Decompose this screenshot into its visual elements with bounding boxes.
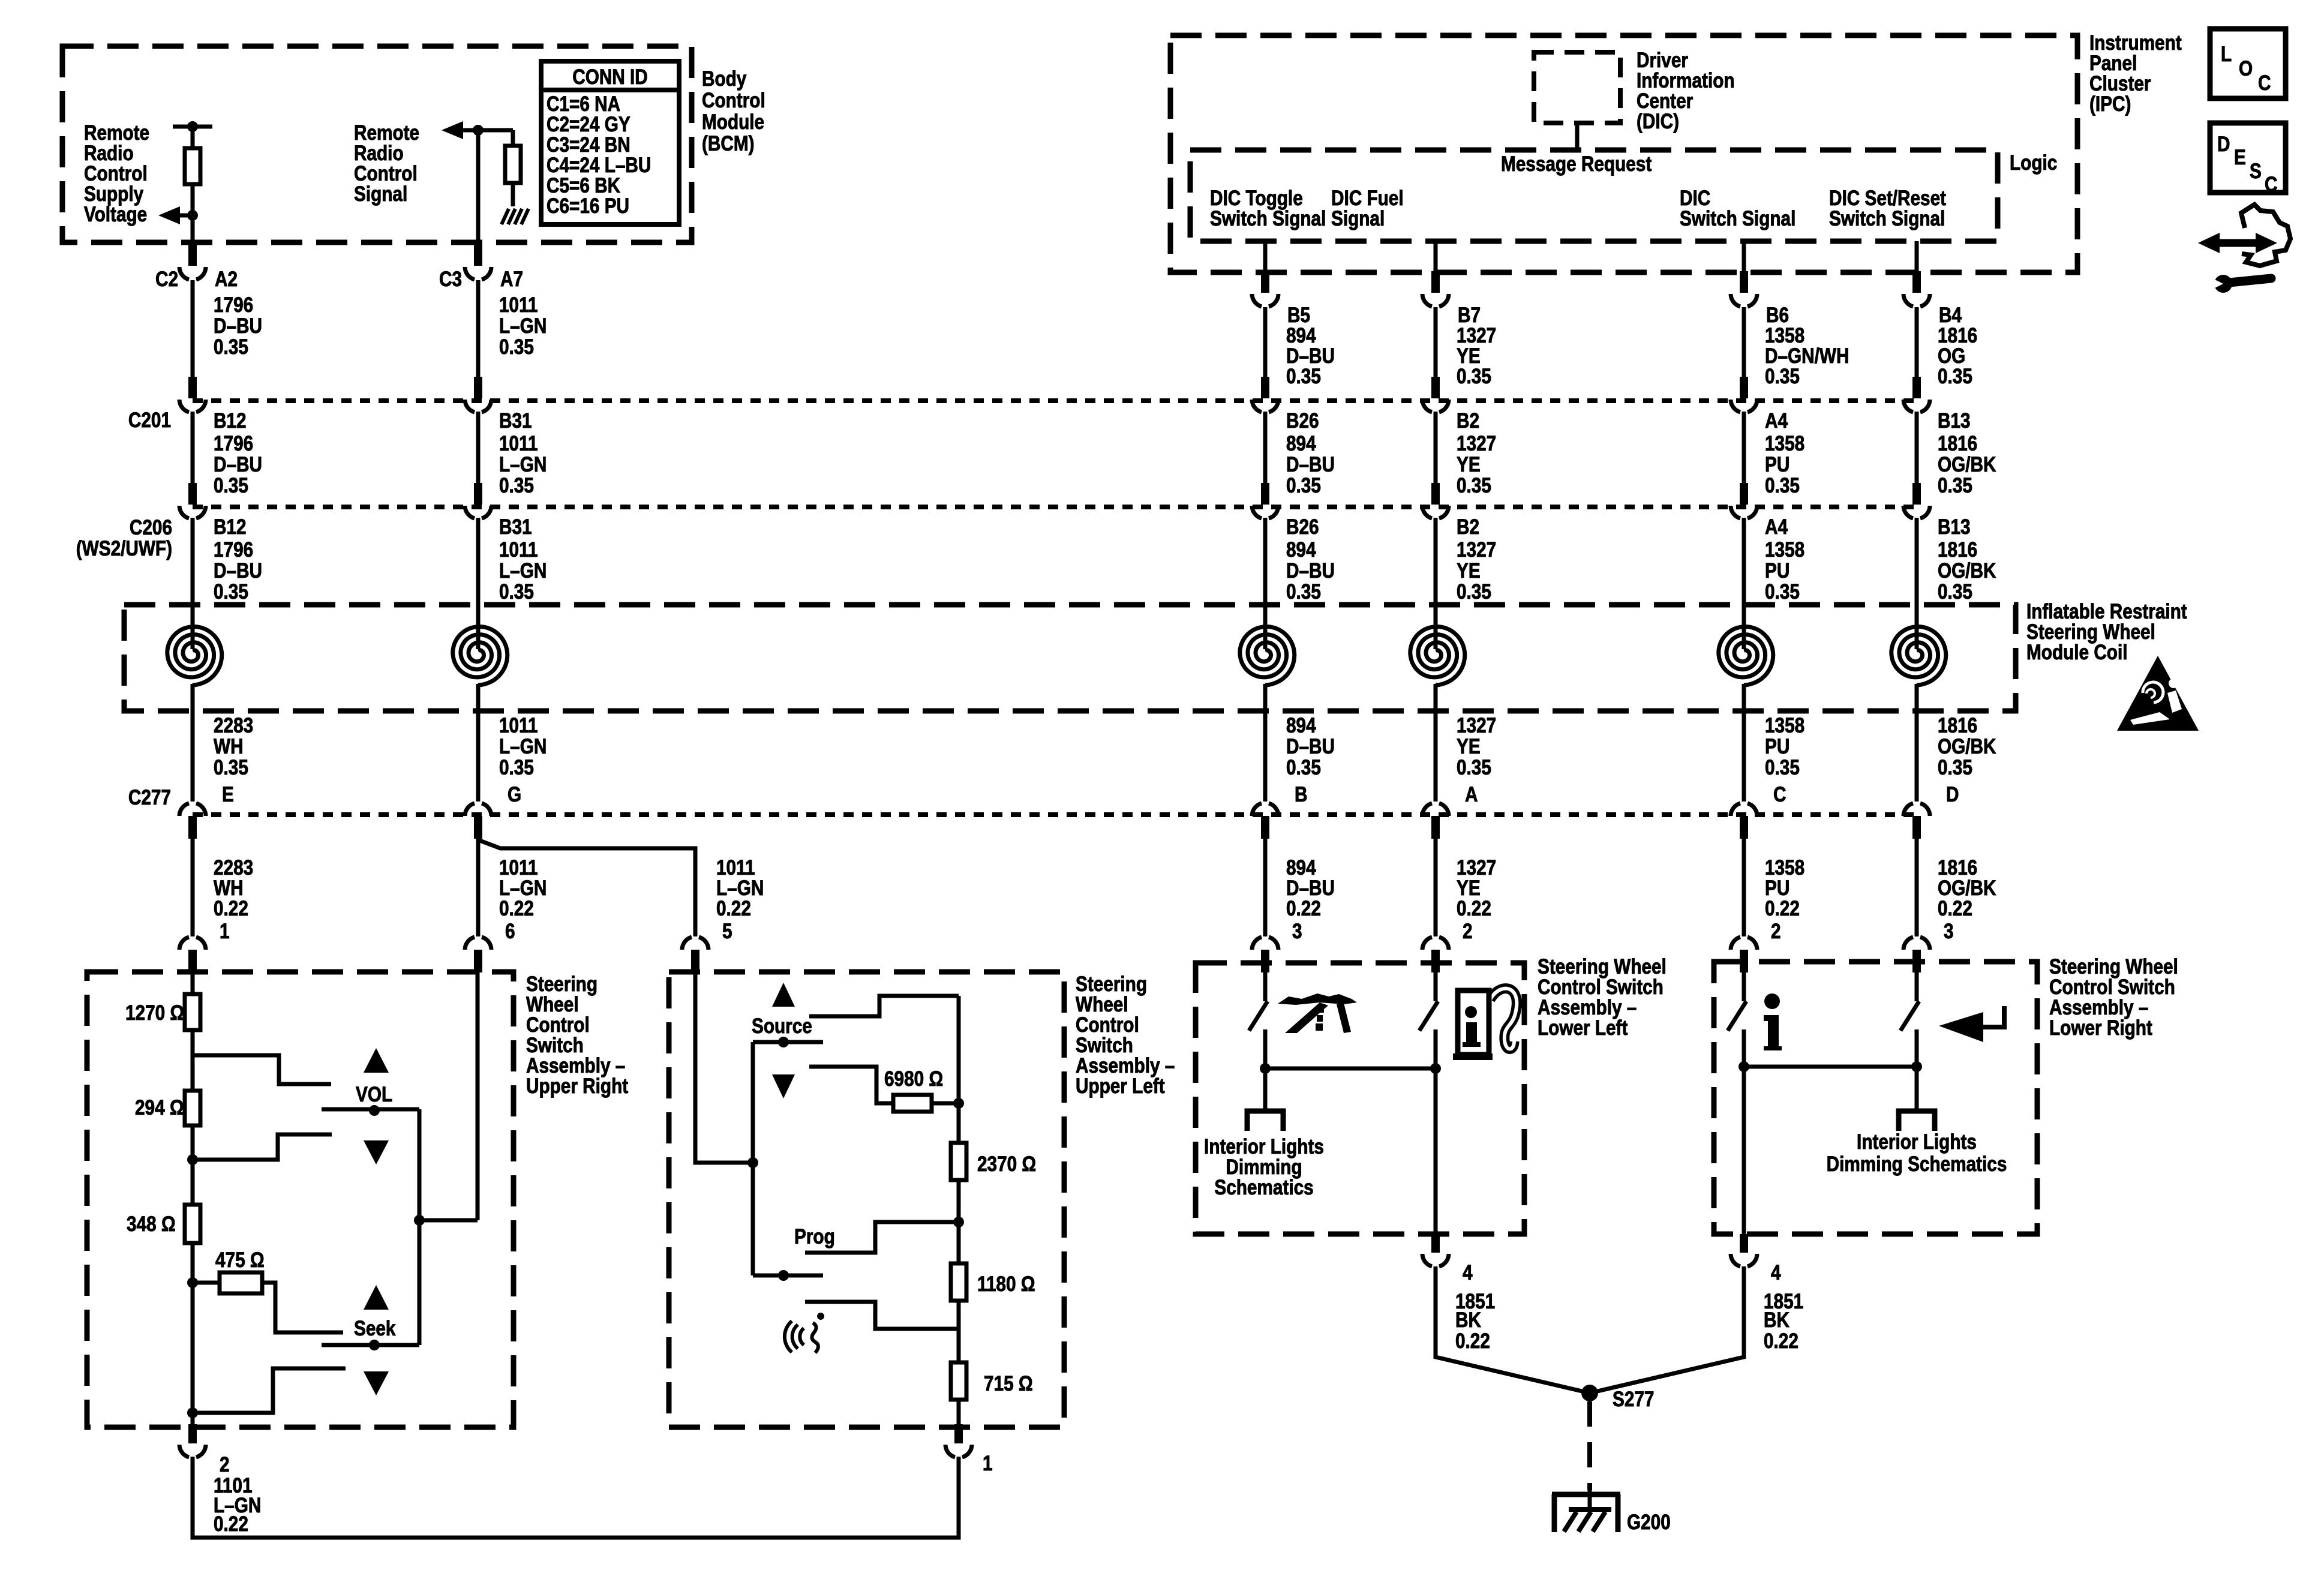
icon: set/reset left arrow	[1939, 1006, 2004, 1042]
svg-text:C5=6 BK: C5=6 BK	[547, 174, 621, 197]
svg-text:PU: PU	[1765, 876, 1789, 900]
wire: Prog common contact	[753, 1270, 823, 1281]
svg-text:D–BU: D–BU	[214, 314, 262, 338]
label: 1796 D-BU 0.35 (row1 col1)	[214, 293, 262, 359]
svg-text:D–BU: D–BU	[214, 453, 262, 476]
icon: VOL down arrow	[364, 1140, 389, 1164]
svg-text:D: D	[1946, 783, 1959, 806]
svg-text:0.35: 0.35	[214, 756, 248, 779]
module box: Steering Wheel Control Switch Assembly - Lower Right	[1714, 962, 2037, 1234]
connector C201 pin B2	[1422, 377, 1449, 412]
connector: lower assembly pin 2 (x=2393)	[1422, 937, 1449, 972]
wire: Source lower contact	[809, 1067, 893, 1103]
svg-text:B13: B13	[1938, 409, 1971, 433]
label: 2283 WH 0.35 (row4)	[214, 714, 253, 779]
wire: bus to pin 1	[957, 1400, 961, 1424]
wire: VOL/Seek common bus	[414, 1109, 425, 1345]
svg-text:2: 2	[1463, 920, 1473, 943]
svg-text:1327: 1327	[1457, 856, 1496, 879]
resistor R 2370	[951, 1143, 966, 1180]
label: 1180 ohm	[977, 1272, 1035, 1296]
svg-text:YE: YE	[1457, 735, 1481, 758]
svg-text:DIC Set/Reset: DIC Set/Reset	[1829, 187, 1946, 210]
svg-text:Supply: Supply	[84, 182, 143, 206]
svg-text:C277: C277	[128, 786, 171, 809]
coil (clockspring) on wire 894	[1240, 627, 1295, 686]
wire: to R475	[193, 1281, 220, 1285]
connector C277 pin A	[1422, 803, 1449, 839]
arrow: Remote Radio Control Supply Voltage	[158, 206, 193, 224]
svg-text:A4: A4	[1765, 515, 1788, 539]
icon: Seek up arrow	[364, 1285, 389, 1310]
svg-text:G200: G200	[1627, 1511, 1671, 1534]
wire: R6980 to bus	[932, 1101, 959, 1106]
svg-text:Body: Body	[702, 67, 746, 91]
coil (clockspring) on wire 1816	[1891, 627, 1946, 686]
wire 1327 (C201 to C206)	[1434, 412, 1438, 484]
module box: Steering Wheel Control Switch Assembly - Upper Left	[669, 972, 1064, 1427]
svg-text:0.35: 0.35	[1286, 756, 1321, 779]
wire 1327 (C277 to switch pin 2)	[1434, 837, 1438, 936]
wire: Source common contact	[753, 1037, 823, 1047]
label: 1011 L–GN 0.35 (row4)	[499, 714, 547, 779]
label: Interior Lights Dimming Schematics (right)	[1827, 1130, 2007, 1176]
svg-text:DIC Fuel: DIC Fuel	[1331, 187, 1404, 210]
icon: VOL up arrow	[364, 1048, 389, 1073]
wire 1011 (C201 to C206)	[476, 412, 481, 484]
connector: upper-right assembly pin 6	[465, 937, 491, 972]
svg-text:2283: 2283	[214, 714, 253, 737]
svg-text:1180 Ω: 1180 Ω	[977, 1272, 1035, 1296]
wire 894 (IPC to C201)	[1263, 307, 1268, 378]
label: C277	[128, 786, 171, 809]
svg-text:2283: 2283	[214, 856, 253, 879]
stub: interior lights dimming (left)	[1247, 1111, 1283, 1131]
svg-text:B31: B31	[499, 409, 532, 433]
label: DIC Fuel Signal	[1331, 187, 1404, 230]
svg-text:D–GN/WH: D–GN/WH	[1765, 344, 1849, 368]
wire 1816 (coil to C277)	[1915, 684, 1919, 801]
svg-text:0.35: 0.35	[499, 474, 534, 497]
label: Interior Lights Dimming Schematics (left)	[1204, 1135, 1324, 1199]
label: 894 D–BU 0.22 / pin 3	[1286, 856, 1335, 943]
svg-text:Module Coil: Module Coil	[2026, 641, 2127, 664]
wire: pin 6 bus	[476, 972, 480, 1220]
svg-text:0.35: 0.35	[499, 756, 534, 779]
label: pin 2 / 1101 L-GN 0.22	[214, 1453, 261, 1536]
connector C277 pin G	[465, 803, 491, 839]
wire: Seek lower contact	[193, 1368, 346, 1413]
wire 2283 (coil to C277)	[191, 684, 195, 801]
svg-text:1327: 1327	[1457, 714, 1496, 737]
wire: bottom link pin2 to pin1	[193, 1457, 959, 1538]
svg-text:C206: C206	[130, 516, 172, 539]
svg-text:BK: BK	[1455, 1308, 1481, 1332]
wire: col6 to dimming stub	[1915, 1029, 1919, 1111]
svg-text:0.35: 0.35	[1286, 365, 1321, 388]
svg-text:1327: 1327	[1457, 538, 1496, 562]
label: 1011 L-GN 0.35 (row1 col2)	[499, 293, 547, 359]
svg-text:0.35: 0.35	[1457, 365, 1491, 388]
connector C206 pin B12	[179, 483, 206, 518]
icon: fuel pump	[1453, 989, 1517, 1060]
svg-text:C4=24 L–BU: C4=24 L–BU	[547, 154, 651, 177]
svg-text:0.22: 0.22	[1938, 897, 1972, 920]
svg-text:1358: 1358	[1765, 856, 1804, 879]
label: 1358 PU 0.22 / pin 2	[1765, 856, 1804, 943]
svg-text:D–BU: D–BU	[1286, 344, 1335, 368]
svg-text:D–BU: D–BU	[1286, 559, 1335, 583]
svg-text:2: 2	[1771, 920, 1781, 943]
label: C206 B13	[1938, 515, 1971, 539]
label: Body Control Module (BCM)	[702, 67, 765, 155]
wire 894 (coil to C277)	[1263, 684, 1268, 801]
label: 1270 ohm	[125, 1001, 184, 1025]
wire: source/prog common bus	[747, 1042, 758, 1275]
label: C206 B26	[1286, 515, 1319, 539]
svg-text:0.22: 0.22	[214, 897, 248, 920]
svg-text:Lower Right: Lower Right	[2049, 1016, 2152, 1040]
arrow: Remote Radio Control Signal	[442, 121, 476, 139]
svg-text:Remote: Remote	[84, 121, 149, 145]
connector IPC pin B4	[1903, 271, 1930, 307]
resistor R1 (BCM internal pull-up)	[185, 148, 200, 184]
icon: Seek down arrow	[364, 1371, 389, 1395]
wire: fuel switch upper (col4)	[1434, 972, 1438, 1001]
connector: upper-left assembly pin 1 (bottom)	[945, 1424, 972, 1457]
label: 1816 OG 0.35 (row1)	[1938, 324, 1977, 388]
label: Source	[752, 1014, 812, 1038]
svg-text:2370 Ω: 2370 Ω	[977, 1152, 1036, 1176]
label: 1327 YE 0.35 (row4)	[1457, 714, 1496, 779]
label: 894 D–BU 0.35 (row4)	[1286, 714, 1335, 779]
coil (clockspring) on wire 1011	[453, 627, 508, 686]
svg-text:D: D	[2217, 133, 2230, 156]
svg-text:Switch: Switch	[1076, 1034, 1133, 1057]
wire: set/reset switch upper (col6)	[1915, 972, 1919, 1001]
svg-text:C3: C3	[439, 268, 462, 291]
svg-text:YE: YE	[1457, 453, 1481, 476]
label: 1011 L–GN 0.35 (row3)	[499, 538, 547, 604]
connector C201 pin A4	[1731, 377, 1757, 412]
wire: tie line lower-right	[1739, 1061, 1922, 1072]
svg-text:C: C	[2265, 173, 2277, 196]
splice S277	[1581, 1385, 1598, 1401]
svg-text:Switch Signal: Switch Signal	[1210, 207, 1326, 230]
label: Steering Wheel Control Switch Assembly - Upper Left	[1076, 972, 1175, 1098]
wire: tick to resistor R1	[191, 127, 195, 148]
connector: lower-left assembly pin 4	[1422, 1234, 1449, 1266]
svg-text:D–BU: D–BU	[214, 559, 262, 583]
svg-text:D–BU: D–BU	[1286, 735, 1335, 758]
svg-text:6980 Ω: 6980 Ω	[884, 1067, 943, 1091]
svg-text:B13: B13	[1938, 515, 1971, 539]
svg-text:Lower Left: Lower Left	[1538, 1016, 1628, 1040]
wire 894 (C201 to C206)	[1263, 412, 1268, 484]
svg-text:C1=6 NA: C1=6 NA	[547, 92, 620, 116]
connector: lower assembly pin 3 (x=3195)	[1903, 937, 1930, 972]
wire 1327 (IPC to C201)	[1434, 307, 1438, 378]
svg-text:L: L	[2221, 43, 2232, 66]
connector C201 pin B26	[1252, 377, 1278, 412]
wire 1327 (coil to C277)	[1434, 684, 1438, 801]
wire: Logic output to pin B6	[1742, 241, 1746, 274]
wire: Logic output to pin B7	[1434, 241, 1438, 274]
label: pin 1	[983, 1452, 993, 1475]
label: pin 4 / 1851 BK 0.22 (right)	[1764, 1261, 1803, 1353]
label: Instrument Panel Cluster (IPC)	[2089, 31, 2182, 116]
label: C201 B26	[1286, 409, 1319, 433]
box: Driver Information Center (DIC)	[1534, 52, 1620, 123]
wire: info switch upper (col5)	[1742, 972, 1746, 1001]
label: 1327 YE 0.35 (row2)	[1457, 432, 1496, 497]
svg-text:C2=24 GY: C2=24 GY	[547, 113, 630, 136]
label: S277	[1613, 1388, 1654, 1411]
connector IPC pin B5	[1252, 271, 1278, 307]
svg-text:1358: 1358	[1765, 324, 1804, 347]
label: C277 pin B	[1295, 783, 1307, 806]
svg-text:Assembly –: Assembly –	[1076, 1054, 1175, 1077]
connector C201 pin B13	[1903, 377, 1930, 412]
connector C277 pin C	[1731, 803, 1757, 839]
svg-text:S: S	[2250, 160, 2262, 183]
svg-text:6: 6	[505, 920, 515, 943]
svg-text:B12: B12	[214, 409, 247, 433]
svg-text:YE: YE	[1457, 876, 1481, 900]
connector C206 pin B2	[1422, 483, 1449, 518]
svg-text:E: E	[222, 783, 234, 806]
svg-text:Dimming: Dimming	[1226, 1155, 1302, 1179]
svg-text:(IPC): (IPC)	[2089, 92, 2131, 116]
svg-text:B6: B6	[1766, 304, 1789, 327]
svg-text:(WS2/UWF): (WS2/UWF)	[76, 537, 172, 560]
label: 1327 YE 0.35 (row1)	[1457, 324, 1496, 388]
label: C201 B31	[499, 409, 532, 433]
svg-text:0.22: 0.22	[1286, 897, 1321, 920]
svg-text:B31: B31	[499, 515, 532, 539]
svg-text:4: 4	[1463, 1261, 1473, 1284]
connector C201 pin B12	[179, 377, 206, 412]
wire: Prog upper contact	[805, 1222, 959, 1253]
svg-text:Steering: Steering	[1076, 972, 1147, 996]
svg-text:B5: B5	[1287, 304, 1310, 327]
wire: Seek common contact	[322, 1340, 419, 1350]
svg-text:0.35: 0.35	[1938, 756, 1972, 779]
wire: VOL upper contact	[193, 1055, 331, 1084]
svg-text:L–GN: L–GN	[499, 453, 547, 476]
svg-text:0.35: 0.35	[1457, 756, 1491, 779]
svg-text:1816: 1816	[1938, 538, 1977, 562]
svg-text:1011: 1011	[499, 538, 538, 562]
label: 1327 YE 0.35 (row3)	[1457, 538, 1496, 604]
svg-text:5: 5	[722, 920, 732, 943]
svg-text:1011: 1011	[499, 856, 538, 879]
label: DIC Set/Reset Switch Signal	[1829, 187, 1946, 230]
connector C206 pin A4	[1731, 483, 1757, 518]
label: 6980 ohm	[884, 1067, 943, 1091]
svg-text:B2: B2	[1457, 409, 1479, 433]
wire: VOL common contact	[322, 1105, 419, 1116]
label: 715 ohm	[984, 1372, 1033, 1395]
svg-text:0.35: 0.35	[1457, 580, 1491, 604]
svg-text:1011: 1011	[499, 714, 538, 737]
svg-text:1816: 1816	[1938, 856, 1977, 879]
label: 1816 OG/BK 0.35 (row2)	[1938, 432, 1996, 497]
svg-text:0.35: 0.35	[499, 580, 534, 604]
label: 894 D–BU 0.35 (row2)	[1286, 432, 1335, 497]
svg-text:1796: 1796	[214, 293, 253, 317]
wire 1816 (C201 to C206)	[1915, 412, 1919, 484]
svg-text:0.35: 0.35	[1938, 365, 1972, 388]
svg-text:1816: 1816	[1938, 432, 1977, 455]
label: 475 ohm	[215, 1248, 265, 1272]
svg-text:VOL: VOL	[356, 1083, 392, 1106]
icon: DIC toggle (road)	[1278, 993, 1357, 1033]
label: C206 (WS2/UWF)	[76, 516, 172, 560]
svg-text:2: 2	[220, 1453, 230, 1476]
wire: node to BCM pin A7	[476, 130, 481, 242]
svg-text:1: 1	[220, 920, 230, 943]
svg-text:Upper Left: Upper Left	[1076, 1074, 1165, 1098]
label: C2 | A2	[155, 268, 238, 291]
wire 1816 (IPC to C201)	[1915, 307, 1919, 378]
label: Driver Information Center (DIC)	[1637, 49, 1735, 133]
icon: Source down arrow	[772, 1074, 795, 1098]
svg-text:Steering: Steering	[526, 972, 597, 996]
svg-text:Control: Control	[354, 162, 418, 185]
svg-text:1816: 1816	[1938, 714, 1977, 737]
label: 1358 D–GN/WH 0.35 (row1)	[1765, 324, 1849, 388]
label: 2370 ohm	[977, 1152, 1036, 1176]
svg-text:Panel: Panel	[2089, 52, 2137, 75]
svg-text:OG/BK: OG/BK	[1938, 559, 1996, 583]
wire 1796 D-BU (BCM to C201)	[191, 280, 195, 378]
wire 1358 (C277 to switch pin 2)	[1742, 837, 1746, 936]
legend box: LOC	[2210, 29, 2286, 98]
svg-text:0.22: 0.22	[214, 1512, 248, 1536]
label: C277 pin A	[1465, 783, 1478, 806]
module box: Steering Wheel Control Switch Assembly - Upper Right	[87, 972, 514, 1427]
wire: voice contact	[805, 1302, 959, 1329]
wire: R1270 to R294	[191, 1030, 195, 1091]
label: 1011 L–GN 0.35 (row2)	[499, 432, 547, 497]
svg-text:B7: B7	[1458, 304, 1481, 327]
svg-text:0.22: 0.22	[1457, 897, 1491, 920]
svg-text:894: 894	[1286, 856, 1316, 879]
switch: DIC info	[1728, 1001, 1746, 1031]
connector: upper-left assembly pin 5	[682, 937, 708, 972]
connector C277 pin B	[1252, 803, 1278, 839]
resistor R 1270	[185, 994, 200, 1030]
svg-text:1816: 1816	[1938, 324, 1977, 347]
svg-text:0.35: 0.35	[214, 580, 248, 604]
connector C206 pin B13	[1903, 483, 1930, 518]
label: 2283 WH 0.22 / pin 1	[214, 856, 253, 943]
svg-text:L–GN: L–GN	[716, 876, 764, 900]
svg-text:Schematics: Schematics	[1214, 1176, 1313, 1199]
icon: information i	[1764, 993, 1782, 1050]
label: 348 ohm	[127, 1212, 176, 1236]
label: Message Request	[1501, 152, 1652, 176]
label: 1327 YE 0.22 / pin 2	[1457, 856, 1496, 943]
svg-text:1: 1	[983, 1452, 993, 1475]
wire: branch to pin 5	[478, 840, 695, 936]
wire: bus mid segment	[953, 1180, 964, 1263]
label: Steering Wheel Control Switch Assembly - Lower Right	[2049, 955, 2178, 1040]
svg-text:G: G	[508, 783, 521, 806]
label: G200	[1627, 1511, 1671, 1534]
label: Steering Wheel Control Switch Assembly - Lower Left	[1538, 955, 1667, 1040]
wire 1816 (C206 to coil)	[1915, 518, 1919, 649]
icon: removal/service part with double arrow and wrench	[2198, 205, 2290, 293]
svg-text:1011: 1011	[716, 856, 755, 879]
svg-text:A7: A7	[500, 268, 523, 291]
wire 1358 (C206 to coil)	[1742, 518, 1746, 649]
svg-text:C6=16 PU: C6=16 PU	[547, 194, 629, 218]
wire: col3 to dimming stub	[1263, 1068, 1268, 1111]
svg-text:B2: B2	[1457, 515, 1479, 539]
coil (clockspring) on wire 2283	[167, 627, 222, 686]
connector IPC pin B6	[1731, 271, 1757, 307]
svg-text:D–BU: D–BU	[1286, 453, 1335, 476]
svg-text:Control: Control	[84, 162, 148, 185]
label: C206 B31	[499, 515, 532, 539]
svg-text:894: 894	[1286, 538, 1316, 562]
svg-text:OG/BK: OG/BK	[1938, 453, 1996, 476]
label: C206 A4	[1765, 515, 1788, 539]
label: 1358 PU 0.35 (row4)	[1765, 714, 1804, 779]
wire: toggle switch upper (col3)	[1263, 972, 1268, 1001]
svg-text:1011: 1011	[499, 432, 538, 455]
svg-text:0.35: 0.35	[214, 335, 248, 359]
svg-text:CONN ID: CONN ID	[572, 65, 648, 89]
label: pin 4 / 1851 BK 0.22 (left)	[1455, 1261, 1495, 1353]
label: DIC Toggle Switch Signal	[1210, 187, 1326, 230]
wire: Seek upper contact	[262, 1283, 343, 1332]
svg-text:Message Request: Message Request	[1501, 152, 1652, 176]
wire: common to pin 6 bus	[419, 1218, 478, 1223]
svg-text:Switch: Switch	[526, 1034, 584, 1057]
label: 1011 L-GN 0.22 / pin 5	[716, 856, 764, 943]
wire 1358 (coil to C277)	[1742, 684, 1746, 801]
svg-text:1270 Ω: 1270 Ω	[125, 1001, 184, 1025]
label: 1358 PU 0.35 (row2)	[1765, 432, 1804, 497]
label: Inflatable Restraint Steering Wheel Module Coil	[2026, 600, 2187, 664]
table: CONN ID	[541, 61, 679, 224]
resistor R 294	[185, 1091, 200, 1125]
connector C206 pin B26	[1252, 483, 1278, 518]
ground G200	[1552, 1490, 1620, 1532]
svg-text:Switch Signal: Switch Signal	[1680, 207, 1795, 230]
label: 294 ohm	[135, 1096, 184, 1119]
svg-text:DIC: DIC	[1680, 187, 1710, 210]
wire 1358 (IPC to C201)	[1742, 307, 1746, 378]
label: C201 B13	[1938, 409, 1971, 433]
connector C206 pin B31	[465, 483, 491, 518]
svg-text:B26: B26	[1286, 515, 1319, 539]
svg-text:Upper Right: Upper Right	[526, 1074, 628, 1098]
svg-text:1327: 1327	[1457, 324, 1496, 347]
svg-text:1796: 1796	[214, 432, 253, 455]
svg-text:L–GN: L–GN	[499, 876, 547, 900]
wire: signal node	[454, 125, 513, 136]
svg-text:O: O	[2239, 57, 2253, 80]
wire: S277 to G200 (dashed)	[1587, 1401, 1592, 1490]
label: 1816 OG/BK 0.22 / pin 3	[1938, 856, 1996, 943]
svg-text:1796: 1796	[214, 538, 253, 562]
switch: DIC fuel	[1419, 1001, 1438, 1031]
resistor R 1180	[951, 1263, 966, 1301]
